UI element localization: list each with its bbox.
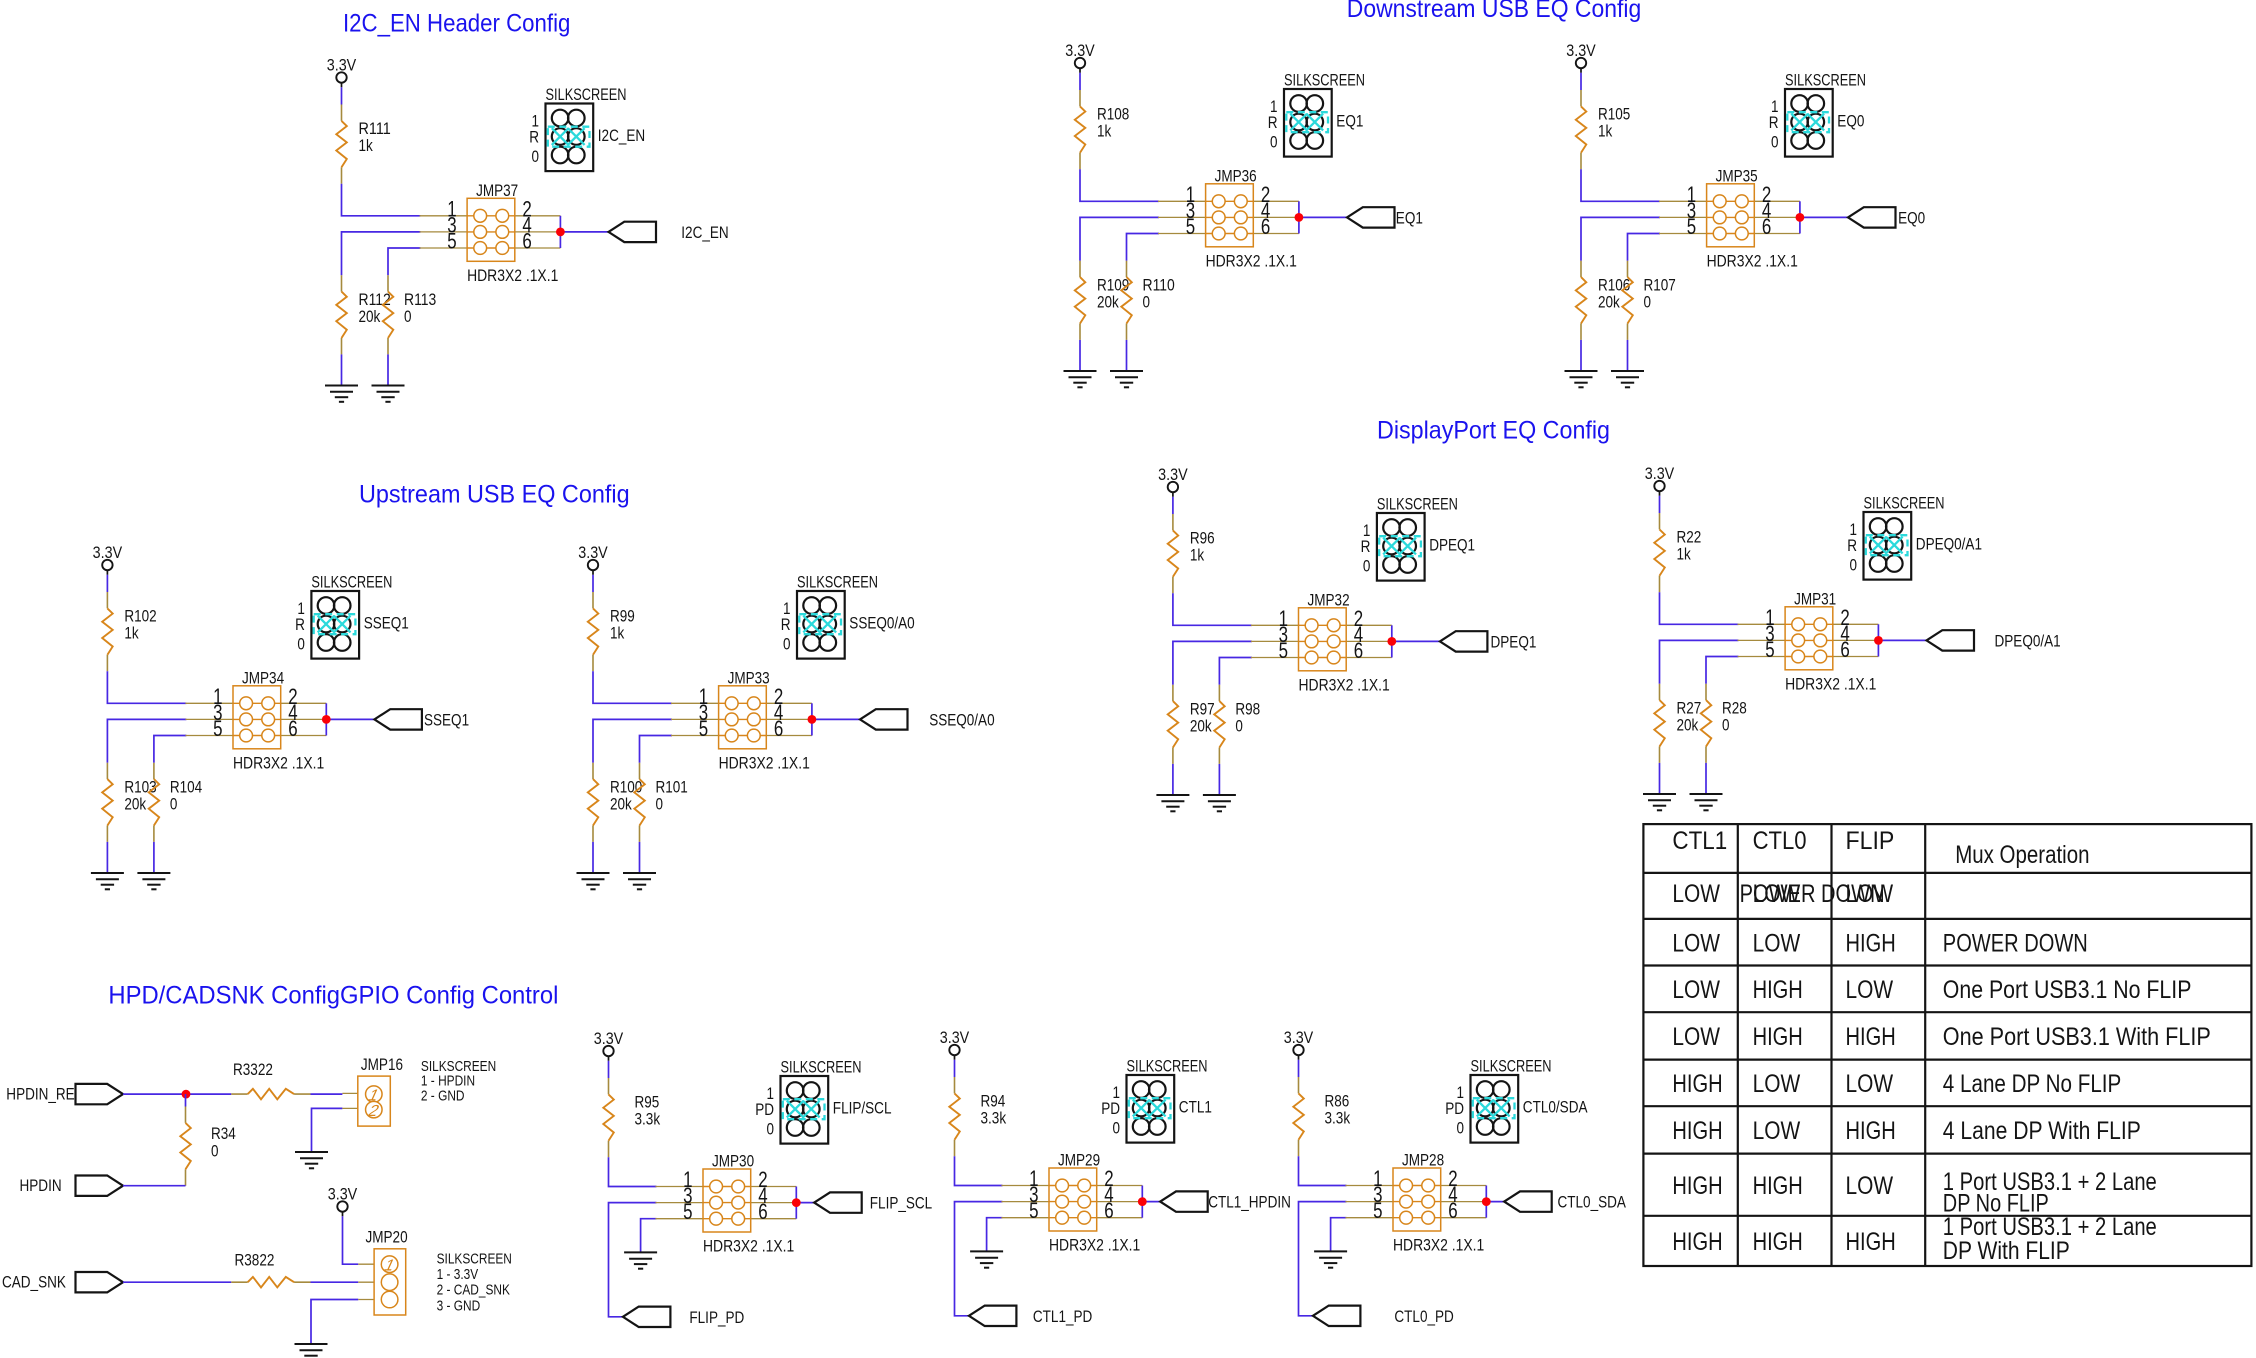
wire R113 to ground: [387, 354, 389, 385]
table Mux Operation truth table: [1643, 824, 2251, 1266]
wire pin5 to R101: [640, 736, 673, 763]
svg-text:HIGH: HIGH: [1672, 1117, 1722, 1145]
silkscreen legend DPEQ0/A1: [1847, 494, 1982, 579]
svg-text:PD: PD: [755, 1101, 774, 1119]
silkscreen legend FLIP/SCL: [755, 1058, 891, 1143]
ground: [1203, 795, 1236, 811]
resistor R101 0: [634, 763, 645, 842]
header JMP16: [342, 1056, 403, 1126]
wire pin3 to R100: [593, 719, 672, 762]
power symbol 3.3V: [594, 1030, 624, 1061]
wire pin5 to R110: [1127, 234, 1160, 261]
svg-text:R: R: [1361, 538, 1371, 556]
resistor R107 0: [1622, 261, 1633, 340]
svg-text:SILKSCREEN: SILKSCREEN: [421, 1059, 496, 1075]
silkscreen legend CTL0/SDA: [1445, 1057, 1587, 1142]
wire R97 to ground: [1172, 764, 1174, 795]
resistor R105 1k: [1576, 90, 1587, 169]
wire CAD_SNK to R38: [123, 1281, 231, 1283]
svg-text:I2C_EN: I2C_EN: [598, 127, 645, 145]
resistor R113 0: [383, 275, 394, 354]
svg-text:CTL1: CTL1: [1179, 1099, 1212, 1117]
net flag CTL1_PD: [969, 1306, 1092, 1326]
header JMP30: [655, 1153, 800, 1256]
svg-text:JMP32: JMP32: [1308, 591, 1350, 609]
svg-text:HIGH: HIGH: [1753, 1228, 1803, 1256]
svg-text:0: 0: [404, 308, 412, 326]
wire 3.3V to R99: [592, 575, 594, 592]
svg-text:R: R: [781, 616, 791, 634]
silkscreen legend EQ1: [1268, 71, 1365, 156]
svg-text:JMP29: JMP29: [1058, 1152, 1100, 1170]
svg-text:One Port USB3.1 With FLIP: One Port USB3.1 With FLIP: [1943, 1023, 2211, 1051]
wire junction to R34: [185, 1094, 187, 1106]
svg-text:HPDIN: HPDIN: [20, 1177, 62, 1195]
wire R105 to pin1: [1581, 169, 1660, 201]
resistor R22 1k: [1654, 513, 1665, 592]
svg-text:20k: 20k: [1598, 294, 1620, 312]
svg-text:CTL0/SDA: CTL0/SDA: [1523, 1099, 1588, 1117]
resistor R111 1k: [336, 105, 347, 184]
svg-text:Upstream USB EQ Config: Upstream USB EQ Config: [359, 481, 630, 509]
svg-text:LOW: LOW: [1846, 976, 1894, 1004]
wire pin3 to CTL1_PD flag: [955, 1202, 1003, 1316]
resistor R98 0: [1214, 685, 1225, 764]
svg-text:0: 0: [1363, 558, 1371, 576]
svg-text:FLIP_SCL: FLIP_SCL: [870, 1195, 932, 1213]
header JMP20: [358, 1229, 407, 1315]
resistor R106 20k: [1576, 261, 1587, 340]
ground: [295, 1152, 328, 1168]
svg-text:CAD_SNK: CAD_SNK: [2, 1274, 66, 1292]
wire R109 to ground: [1079, 340, 1081, 371]
svg-text:LOW: LOW: [1672, 1023, 1720, 1051]
wire pins to net flag: [1392, 640, 1440, 642]
resistor R112 20k: [336, 275, 347, 354]
svg-text:2 - GND: 2 - GND: [421, 1088, 465, 1104]
svg-text:LOW: LOW: [1753, 930, 1801, 958]
net flag CTL0_SDA: [1504, 1191, 1626, 1211]
wire pin5 to R104: [154, 736, 187, 763]
svg-text:1k: 1k: [1097, 123, 1112, 141]
wire 3.3V to R102: [106, 575, 108, 592]
resistor R38 22: [231, 1277, 310, 1288]
svg-text:3.3k: 3.3k: [635, 1111, 661, 1129]
svg-text:HIGH: HIGH: [1846, 930, 1896, 958]
svg-text:R86: R86: [1325, 1093, 1350, 1111]
svg-text:POWER DOWN: POWER DOWN: [1943, 930, 2088, 958]
wire 3.3V to R108: [1079, 73, 1081, 90]
svg-text:EQ0: EQ0: [1837, 113, 1864, 131]
svg-text:SSEQ0/A0: SSEQ0/A0: [849, 615, 914, 633]
svg-text:HIGH: HIGH: [1753, 976, 1803, 1004]
resistor R109 20k: [1075, 261, 1086, 340]
svg-text:0: 0: [1771, 134, 1779, 152]
header JMP31: [1738, 590, 1883, 693]
svg-text:Downstream USB EQ Config: Downstream USB EQ Config: [1347, 0, 1641, 23]
svg-text:LOW: LOW: [1846, 1070, 1894, 1098]
svg-text:0: 0: [1644, 294, 1652, 312]
silkscreen text JMP16: [421, 1059, 496, 1104]
power symbol 3.3V: [1158, 466, 1188, 497]
resistor R100 20k: [588, 763, 599, 842]
ground: [372, 386, 405, 402]
wire R28 to ground: [1705, 763, 1707, 794]
svg-text:0: 0: [1113, 1120, 1121, 1138]
svg-text:R94: R94: [981, 1093, 1006, 1111]
svg-text:20k: 20k: [1190, 718, 1212, 736]
svg-text:1k: 1k: [1598, 123, 1613, 141]
ground: [1314, 1251, 1347, 1267]
svg-text:CTL1: CTL1: [1672, 827, 1727, 855]
wire pins to net flag: [1878, 639, 1926, 641]
power symbol 3.3V: [93, 544, 123, 575]
wire 3.3V to JMP20 pin1: [343, 1216, 359, 1264]
svg-text:0: 0: [211, 1143, 219, 1161]
svg-text:FLIP/SCL: FLIP/SCL: [833, 1100, 892, 1118]
power symbol 3.3V: [327, 57, 357, 88]
svg-text:HIGH: HIGH: [1672, 1172, 1722, 1200]
resistor R108 1k: [1075, 90, 1086, 169]
header JMP35: [1659, 167, 1804, 270]
wire pin3 to R103: [107, 719, 186, 762]
svg-text:20k: 20k: [1677, 717, 1699, 735]
resistor R94 3.3k: [949, 1077, 960, 1156]
svg-text:20k: 20k: [124, 796, 146, 814]
ground: [1110, 371, 1143, 387]
wire HPDIN to R34: [123, 1185, 186, 1187]
wire pin5 to ground: [987, 1218, 1003, 1252]
svg-text:R104: R104: [170, 779, 202, 797]
wire R95 to pin1: [609, 1157, 657, 1186]
resistor R96 1k: [1168, 514, 1179, 593]
header JMP33: [671, 669, 816, 772]
resistor R27 20k: [1654, 684, 1665, 763]
net flag HPDIN_RE: [6, 1084, 123, 1104]
wire 3.3V to R22: [1659, 496, 1661, 513]
power symbol 3.3V: [1566, 42, 1596, 73]
wire 3.3V to R105: [1580, 73, 1582, 90]
net flag FLIP_PD: [623, 1307, 744, 1327]
ground: [1156, 795, 1189, 811]
wire pins to net flag: [1142, 1201, 1160, 1203]
net flag EQ1: [1347, 207, 1423, 227]
svg-text:HPD/CADSNK ConfigGPIO Config: HPD/CADSNK ConfigGPIO Config Control: [108, 982, 558, 1010]
svg-text:HIGH: HIGH: [1753, 1172, 1803, 1200]
header JMP29: [1001, 1152, 1146, 1255]
header JMP32: [1251, 591, 1396, 694]
svg-text:0: 0: [783, 636, 791, 654]
wire R96 to pin1: [1173, 593, 1252, 625]
wire pin3 to R112: [342, 232, 421, 275]
power symbol 3.3V: [1065, 42, 1095, 73]
header JMP34: [185, 669, 330, 772]
resistor R102 1k: [102, 592, 113, 671]
header JMP37: [420, 182, 565, 285]
svg-text:I2C_EN: I2C_EN: [681, 224, 728, 242]
svg-text:1k: 1k: [1190, 547, 1205, 565]
svg-text:R98: R98: [1235, 701, 1260, 719]
wire pin5 to ground: [1331, 1218, 1347, 1252]
ground: [137, 873, 170, 889]
wire pin3 to CTL0_PD flag: [1299, 1202, 1347, 1316]
svg-text:FLIP_PD: FLIP_PD: [689, 1309, 744, 1327]
resistor R33 22: [231, 1089, 310, 1100]
net flag HPDIN: [20, 1176, 124, 1196]
wire pins to net flag: [326, 718, 374, 720]
net flag I2C_EN: [609, 222, 729, 242]
svg-text:R95: R95: [635, 1094, 660, 1112]
wire pin5 to R28: [1706, 657, 1739, 684]
wire pin5 to R113: [388, 248, 421, 275]
svg-text:20k: 20k: [1097, 294, 1119, 312]
svg-text:1k: 1k: [124, 625, 139, 643]
svg-text:R102: R102: [124, 608, 156, 626]
header JMP36: [1158, 167, 1303, 270]
wire R27 to ground: [1659, 763, 1661, 794]
svg-text:0: 0: [297, 636, 305, 654]
wire R22 to pin1: [1660, 592, 1739, 624]
svg-text:DPEQ0/A1: DPEQ0/A1: [1916, 536, 1982, 554]
svg-text:0: 0: [1270, 134, 1278, 152]
wire pin5 to R107: [1628, 234, 1661, 261]
svg-text:0: 0: [1235, 718, 1243, 736]
svg-text:3.3k: 3.3k: [981, 1110, 1007, 1128]
header JMP28: [1345, 1152, 1490, 1255]
svg-text:JMP20: JMP20: [366, 1229, 408, 1247]
wire JMP16 pin2 to ground: [312, 1108, 343, 1152]
ground: [295, 1344, 328, 1358]
wire 3.3V to R95: [608, 1061, 610, 1078]
resistor R110 0: [1121, 261, 1132, 340]
svg-text:0: 0: [170, 796, 178, 814]
wire R33 to JMP16 pin1: [311, 1093, 343, 1095]
wire pins to net flag: [1800, 216, 1848, 218]
svg-text:R: R: [1847, 537, 1857, 555]
wire R99 to pin1: [593, 671, 672, 703]
svg-text:PD: PD: [1445, 1100, 1464, 1118]
wire R94 to pin1: [955, 1156, 1003, 1185]
svg-text:PD: PD: [1101, 1100, 1120, 1118]
svg-text:HIGH: HIGH: [1846, 1023, 1896, 1051]
svg-text:4 Lane DP No FLIP: 4 Lane DP No FLIP: [1943, 1070, 2122, 1098]
svg-text:DisplayPort EQ Config: DisplayPort EQ Config: [1377, 417, 1610, 445]
silkscreen legend I2C_EN: [529, 86, 645, 171]
net flag EQ0: [1848, 207, 1925, 227]
svg-text:1 - HPDIN: 1 - HPDIN: [421, 1074, 475, 1090]
wire 3.3V to R94: [954, 1060, 956, 1077]
wire R106 to ground: [1580, 340, 1582, 371]
svg-text:EQ0: EQ0: [1898, 209, 1925, 227]
power symbol 3.3V: [1645, 465, 1675, 496]
svg-text:LOW: LOW: [1672, 976, 1720, 1004]
net flag CTL1_HPDIN: [1160, 1191, 1291, 1211]
svg-text:JMP37: JMP37: [476, 182, 518, 200]
wire pin5 to R98: [1219, 658, 1252, 685]
wire JMP20 pin3 to ground: [311, 1300, 358, 1345]
svg-text:LOW: LOW: [1846, 880, 1894, 908]
ground: [1565, 371, 1598, 387]
wire R110 to ground: [1126, 340, 1128, 371]
svg-text:0: 0: [1722, 717, 1730, 735]
svg-text:20k: 20k: [610, 796, 632, 814]
svg-text:CTL0: CTL0: [1753, 827, 1807, 855]
wire pin3 to R109: [1080, 217, 1159, 260]
svg-text:R108: R108: [1097, 106, 1129, 124]
ground: [91, 873, 124, 889]
svg-text:20k: 20k: [359, 308, 381, 326]
ground: [1690, 794, 1723, 810]
net flag CAD_SNK: [2, 1272, 123, 1292]
svg-text:HIGH: HIGH: [1672, 1070, 1722, 1098]
ground: [1064, 371, 1097, 387]
svg-text:0: 0: [656, 796, 664, 814]
svg-text:Mux Operation: Mux Operation: [1955, 841, 2089, 869]
svg-text:FLIP: FLIP: [1846, 827, 1895, 855]
resistor R103 20k: [102, 763, 113, 842]
svg-text:HIGH: HIGH: [1672, 1228, 1722, 1256]
svg-text:R99: R99: [610, 608, 635, 626]
net flag DPEQ1: [1440, 631, 1537, 651]
svg-text:EQ1: EQ1: [1396, 209, 1423, 227]
svg-text:JMP16: JMP16: [361, 1056, 403, 1074]
svg-text:R113: R113: [404, 291, 436, 309]
svg-text:EQ1: EQ1: [1336, 113, 1363, 131]
wire 3.3V to R86: [1298, 1060, 1300, 1077]
svg-text:R110: R110: [1143, 277, 1175, 295]
silkscreen text JMP20: [437, 1252, 512, 1315]
svg-text:CTL0_SDA: CTL0_SDA: [1558, 1194, 1626, 1212]
svg-text:HPDIN_RE: HPDIN_RE: [6, 1086, 74, 1104]
wire R108 to pin1: [1080, 169, 1159, 201]
wire pin3 to FLIP_PD flag: [609, 1203, 657, 1317]
svg-text:HIGH: HIGH: [1846, 1117, 1896, 1145]
svg-text:R3822: R3822: [235, 1251, 275, 1269]
svg-text:DPEQ0/A1: DPEQ0/A1: [1995, 632, 2061, 650]
svg-text:I2C_EN Header Config: I2C_EN Header Config: [343, 10, 570, 38]
power symbol 3.3V: [328, 1186, 358, 1217]
wire pin3 to R97: [1173, 641, 1252, 684]
ground: [970, 1251, 1003, 1267]
svg-text:R22: R22: [1677, 529, 1702, 547]
ground: [1643, 794, 1676, 810]
svg-text:3.3k: 3.3k: [1325, 1110, 1351, 1128]
svg-text:SSEQ1: SSEQ1: [364, 615, 409, 633]
resistor R97 20k: [1168, 685, 1179, 764]
svg-text:R: R: [295, 616, 305, 634]
svg-text:R: R: [529, 129, 539, 147]
wire pin3 to R27: [1660, 640, 1739, 683]
wire R111 to pin1: [342, 184, 421, 216]
net flag CTL0_PD: [1313, 1306, 1454, 1326]
wire R86 to pin1: [1299, 1156, 1347, 1185]
silkscreen legend DPEQ1: [1361, 495, 1476, 580]
silkscreen legend CTL1: [1101, 1057, 1212, 1142]
svg-text:1 - 3.3V: 1 - 3.3V: [437, 1267, 479, 1283]
power symbol 3.3V: [1284, 1029, 1314, 1060]
svg-text:LOW: LOW: [1753, 1070, 1801, 1098]
net flag SSEQ1: [374, 709, 469, 729]
svg-text:DPEQ1: DPEQ1: [1491, 633, 1537, 651]
ground: [623, 873, 656, 889]
wire pins to net flag: [812, 718, 860, 720]
svg-text:R107: R107: [1644, 277, 1676, 295]
wire R38 to JMP20 pin2: [311, 1281, 359, 1283]
svg-text:One Port USB3.1 No FLIP: One Port USB3.1 No FLIP: [1943, 976, 2192, 1004]
svg-text:3 - GND: 3 - GND: [437, 1298, 481, 1314]
svg-text:1k: 1k: [610, 625, 625, 643]
svg-text:R27: R27: [1677, 700, 1702, 718]
wire pins to net flag: [796, 1202, 814, 1204]
svg-text:R105: R105: [1598, 106, 1630, 124]
ground: [1611, 371, 1644, 387]
wire R107 to ground: [1627, 340, 1629, 371]
svg-text:0: 0: [1457, 1120, 1465, 1138]
svg-text:R28: R28: [1722, 700, 1747, 718]
power symbol 3.3V: [940, 1029, 970, 1060]
net flag FLIP_SCL: [814, 1192, 932, 1212]
wire HPDIN_RE to junction and R33: [123, 1093, 231, 1095]
wire R102 to pin1: [107, 671, 186, 703]
svg-text:1k: 1k: [1677, 546, 1692, 564]
svg-text:R: R: [1268, 114, 1278, 132]
net flag DPEQ0/A1: [1927, 630, 2061, 650]
svg-text:0: 0: [532, 148, 540, 166]
svg-text:JMP31: JMP31: [1794, 590, 1836, 608]
svg-text:SSEQ0/A0: SSEQ0/A0: [929, 711, 994, 729]
svg-text:LOW: LOW: [1672, 880, 1720, 908]
svg-text:HIGH: HIGH: [1846, 1228, 1896, 1256]
svg-text:DPEQ1: DPEQ1: [1429, 537, 1475, 555]
svg-text:CTL1_HPDIN: CTL1_HPDIN: [1208, 1194, 1291, 1212]
net flag SSEQ0/A0: [860, 709, 995, 729]
junction node: [182, 1090, 191, 1099]
svg-text:R111: R111: [359, 120, 391, 138]
svg-text:JMP35: JMP35: [1716, 167, 1758, 185]
svg-text:LOW: LOW: [1753, 880, 1801, 908]
wire pins to net flag: [560, 231, 608, 233]
svg-text:R3322: R3322: [233, 1061, 273, 1079]
wire 3.3V to R96: [1172, 497, 1174, 514]
wire R100 to ground: [592, 842, 594, 873]
wire R104 to ground: [153, 842, 155, 873]
svg-text:DP With FLIP: DP With FLIP: [1943, 1237, 2070, 1265]
svg-text:2 - CAD_SNK: 2 - CAD_SNK: [437, 1283, 511, 1299]
svg-text:LOW: LOW: [1672, 930, 1720, 958]
svg-text:0: 0: [767, 1121, 775, 1139]
svg-text:0: 0: [1850, 557, 1858, 575]
svg-text:R: R: [1769, 114, 1779, 132]
ground: [624, 1252, 657, 1268]
svg-text:JMP30: JMP30: [712, 1153, 754, 1171]
wire pins to net flag: [1299, 216, 1347, 218]
power symbol 3.3V: [578, 544, 608, 575]
wire R112 to ground: [341, 354, 343, 385]
wire pins to net flag: [1486, 1201, 1504, 1203]
ground: [325, 386, 358, 402]
svg-text:CTL0_PD: CTL0_PD: [1394, 1308, 1453, 1326]
resistor R86 3.3k: [1293, 1077, 1304, 1156]
wire pin3 to R106: [1581, 217, 1660, 260]
silkscreen legend SSEQ0/A0: [781, 573, 915, 658]
svg-text:LOW: LOW: [1846, 1172, 1894, 1200]
svg-text:JMP36: JMP36: [1215, 167, 1257, 185]
svg-text:0: 0: [1143, 294, 1151, 312]
svg-text:HIGH: HIGH: [1753, 1023, 1803, 1051]
svg-text:CTL1_PD: CTL1_PD: [1033, 1308, 1092, 1326]
resistor R28 0: [1701, 684, 1712, 763]
svg-text:JMP28: JMP28: [1402, 1152, 1444, 1170]
